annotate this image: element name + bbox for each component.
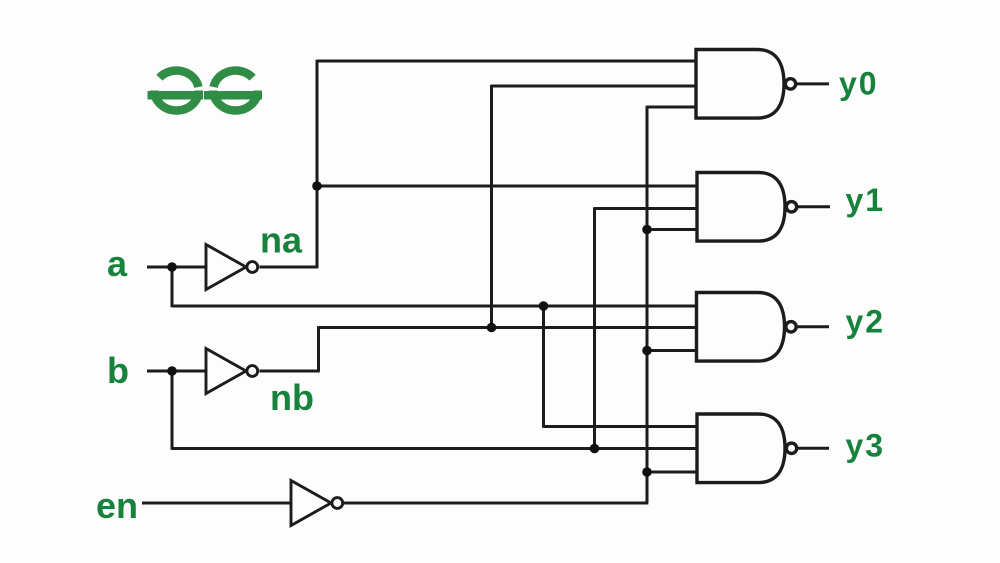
- svg-text:y0: y0: [839, 65, 879, 101]
- svg-text:y2: y2: [846, 303, 886, 339]
- svg-text:a: a: [107, 243, 128, 284]
- svg-text:y3: y3: [846, 428, 886, 464]
- svg-text:na: na: [260, 220, 303, 261]
- svg-text:b: b: [107, 350, 129, 391]
- svg-text:en: en: [96, 485, 138, 526]
- svg-text:nb: nb: [270, 377, 314, 418]
- svg-text:y1: y1: [846, 182, 886, 218]
